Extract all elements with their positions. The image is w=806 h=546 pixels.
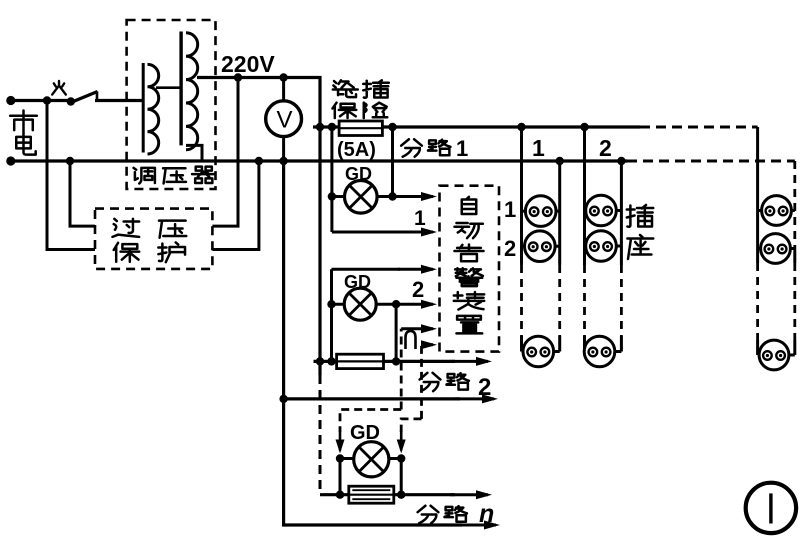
wire column2 left rail bbox=[583, 127, 586, 265]
lamp GD1 bbox=[328, 192, 336, 200]
node junction 220V/OVP riser bbox=[234, 73, 242, 81]
wire lamp2 right vertical bbox=[395, 304, 398, 361]
fuse FU2 bbox=[337, 354, 384, 368]
label 分路2 bbox=[420, 373, 441, 391]
svg-text:2: 2 bbox=[478, 374, 491, 401]
wire lamp3 right vertical to fuse3 bbox=[400, 459, 403, 495]
wire branch2 hot output + arrow bbox=[384, 360, 456, 363]
lamp GD3 bbox=[336, 454, 344, 462]
wire alarm pair1 lower (lamp1 left to alarm) + arrow bbox=[332, 231, 400, 234]
label 调压器 bbox=[134, 168, 155, 184]
wire voltmeter bottom lead bbox=[282, 137, 285, 161]
wire fuse1 input stub bbox=[313, 125, 339, 128]
wire lamp3 left vertical to fuse3 bbox=[339, 459, 342, 495]
label n (alarm pair n) bbox=[406, 331, 416, 349]
wire branch n hot output + arrow bbox=[394, 493, 455, 496]
node junction neutral/OVP drop bbox=[66, 157, 74, 165]
label 市电 (mains) bbox=[10, 110, 37, 133]
transformer primary lead bbox=[142, 63, 145, 153]
socket X3-3 bbox=[758, 354, 795, 357]
overvoltage protector box (过压保护), dashed bbox=[95, 209, 212, 269]
label 分路1 bbox=[401, 139, 422, 156]
wire fuse2 input stub bbox=[314, 360, 337, 363]
svg-text:2: 2 bbox=[504, 236, 516, 261]
node fuse1 output bbox=[388, 123, 396, 131]
wire branch n neutral (from neutral rail corner) + arrow bbox=[284, 161, 462, 525]
svg-text:V: V bbox=[277, 107, 293, 134]
wire hot drop to OVP lower-left input bbox=[47, 101, 95, 250]
alarm device box (自动告警装置), dashed bbox=[440, 186, 500, 352]
node fuse2/lamp2 left tap bbox=[327, 357, 335, 365]
wire hot feed rail (solid) bbox=[318, 127, 321, 375]
wire column1 right rail bbox=[558, 161, 561, 265]
socket X2-2 bbox=[585, 245, 622, 248]
wire branch1 hot line (solid) bbox=[382, 125, 640, 128]
label 过压保护 bbox=[112, 219, 139, 237]
svg-text:1: 1 bbox=[456, 136, 468, 161]
transformer T1 box (调压器 voltage regulator), dashed bbox=[127, 20, 216, 189]
wire lamp2 left vertical bbox=[330, 269, 333, 361]
node mains terminal L (hot) bbox=[6, 96, 15, 105]
transformer core bbox=[179, 32, 182, 146]
wire voltmeter top lead bbox=[282, 78, 285, 101]
wire neutral bus (solid part) bbox=[11, 159, 627, 162]
node feed/fuse1 junction bbox=[316, 123, 324, 131]
socket X3-1 bbox=[758, 209, 795, 212]
wire hot feed rail (dashed to branch n) bbox=[319, 375, 322, 495]
node neutral/column1 junction bbox=[556, 157, 564, 165]
svg-text:2: 2 bbox=[599, 135, 612, 161]
figure number circled 1 bbox=[746, 483, 796, 533]
svg-text:2: 2 bbox=[412, 277, 424, 302]
socket X1-3 bbox=[522, 350, 560, 353]
socket X1-2 bbox=[522, 245, 560, 248]
node fuse3 input bbox=[336, 491, 344, 499]
node neutral rail / branch2 neutral junction bbox=[279, 395, 287, 403]
wire alarm pair n upper: dashed riser and arrow bbox=[400, 329, 403, 410]
wire OVP lower-right output riser to neutral bus bbox=[212, 161, 259, 250]
wire OVP upper-right output riser to 220V line bbox=[212, 78, 238, 227]
label 分路n bbox=[418, 506, 439, 523]
wire alarm pair2 lower (lamp2 right) + arrow bbox=[396, 303, 433, 306]
wire feed corner into fuse3 bbox=[320, 493, 349, 496]
node neutral/column2 junction bbox=[617, 157, 625, 165]
node mains terminal N bbox=[6, 156, 15, 165]
wire column3 left rail (dashed, from branch1 dashed corner) bbox=[756, 127, 759, 263]
wire column1 left rail bbox=[520, 127, 523, 265]
svg-text:1: 1 bbox=[504, 197, 516, 222]
wire column3 right rail (dashed, from neutral dashed corner) bbox=[793, 161, 796, 250]
node branch1/column2 junction bbox=[580, 123, 588, 131]
switch S1 (knife switch, hot line) bbox=[67, 97, 75, 105]
node junction 220V/voltmeter bbox=[279, 73, 287, 81]
node fuse2 output bbox=[392, 357, 400, 365]
wire alarm pair n lower: dashed riser and arrow bbox=[420, 345, 423, 419]
wire lamp1 right vertical bbox=[391, 127, 394, 197]
socket X1-1 bbox=[522, 210, 560, 213]
lamp GD2 bbox=[327, 300, 335, 308]
wire hot bus from terminal to switch bbox=[11, 99, 71, 102]
fuse FU3 bbox=[349, 486, 394, 503]
node fuse3 output bbox=[397, 491, 405, 499]
voltmeter V1 bbox=[266, 101, 302, 137]
arrow down to lamp3 right bbox=[400, 430, 403, 451]
svg-text:220V: 220V bbox=[221, 51, 275, 77]
socket X3-2 bbox=[758, 247, 795, 250]
wire pair n lower dashed route to lamp3 right bbox=[401, 419, 421, 432]
wire neutral drop to OVP upper-left input bbox=[70, 161, 95, 226]
wire switch to transformer primary bbox=[95, 99, 143, 102]
wire primary-core tick bbox=[156, 86, 181, 89]
node junction hot/OVP drop bbox=[43, 96, 51, 104]
node junction neutral/voltmeter/neutral rail bbox=[279, 157, 287, 165]
socket X2-1 bbox=[585, 209, 622, 212]
svg-text:1: 1 bbox=[532, 135, 545, 161]
node feed/fuse2 junction bbox=[316, 357, 324, 365]
wire branch2 neutral output + arrow bbox=[284, 397, 460, 400]
wire secondary bottom lead to neutral bus bbox=[186, 145, 202, 161]
wire alarm pair1 upper (lamp1 right to alarm) + arrow bbox=[393, 195, 434, 198]
transformer primary winding bbox=[148, 64, 159, 154]
wire alarm pair2 upper (lamp2 left) + arrow bbox=[332, 268, 401, 271]
wire 220V output (secondary tap to feed corner) bbox=[197, 78, 320, 128]
svg-text:(5A): (5A) bbox=[337, 139, 376, 161]
socket X2-3 bbox=[584, 350, 621, 353]
wire pair n upper dashed route to lamp3 left bbox=[340, 410, 401, 433]
node branch1/column1 junction bbox=[517, 123, 525, 131]
wire neutral bus (dashed continuation) bbox=[627, 160, 795, 163]
fuse FU1 (瓷插保险 5A) bbox=[339, 121, 382, 136]
transformer secondary winding bbox=[186, 33, 198, 150]
svg-text:n: n bbox=[479, 500, 494, 528]
svg-text:1: 1 bbox=[414, 207, 426, 230]
wire lamp1 left vertical (fuse input to lamp and pair wire) bbox=[330, 127, 333, 232]
node junction neutral/OVP riser bbox=[255, 157, 263, 165]
wire column2 right rail bbox=[620, 161, 623, 265]
node fuse1/lamp1 left tap bbox=[328, 123, 336, 131]
label 瓷插保险 bbox=[333, 80, 358, 97]
label 自动告警装置 (vertical) bbox=[462, 197, 477, 214]
wire branch1 hot line (dashed continuation) bbox=[640, 126, 758, 129]
arrow down to lamp3 left bbox=[339, 430, 342, 451]
label 火 (hot) bbox=[52, 81, 66, 95]
label 插座 (sockets) bbox=[627, 205, 653, 227]
